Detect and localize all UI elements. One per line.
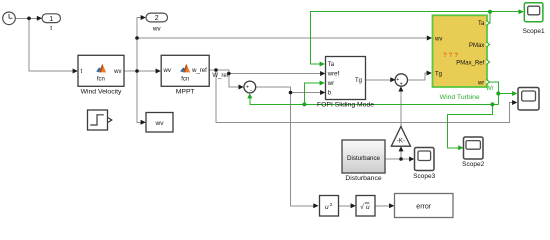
svg-text:2: 2 xyxy=(330,202,333,208)
svg-text:t: t xyxy=(50,25,52,32)
svg-text:√: √ xyxy=(360,203,364,211)
svg-text:Wind Turbine: Wind Turbine xyxy=(440,94,480,101)
svg-text:+: + xyxy=(400,82,403,88)
svg-text:Wind Velocity: Wind Velocity xyxy=(81,88,122,95)
svg-text:Scope1: Scope1 xyxy=(523,28,545,35)
svg-text:FOPI Sliding Mode: FOPI Sliding Mode xyxy=(317,102,374,109)
svg-text:W_ref: W_ref xyxy=(212,73,228,79)
svg-text:-: - xyxy=(250,88,252,94)
svg-text:-K-: -K- xyxy=(397,139,405,145)
svg-text:wv: wv xyxy=(163,68,171,74)
svg-text:error: error xyxy=(416,203,431,210)
svg-text:fcn: fcn xyxy=(181,77,189,83)
svg-text:? ? ?: ? ? ? xyxy=(443,52,458,59)
svg-text:wr: wr xyxy=(327,81,334,87)
svg-text:Disturbance: Disturbance xyxy=(347,155,381,162)
svg-text:2: 2 xyxy=(155,15,159,22)
svg-text:Wr: Wr xyxy=(486,86,494,92)
svg-text:Disturbance: Disturbance xyxy=(345,175,381,182)
svg-text:Tg: Tg xyxy=(355,78,362,84)
svg-text:PMax_Ref: PMax_Ref xyxy=(456,60,484,66)
svg-text:PMax: PMax xyxy=(469,43,484,49)
svg-text:1: 1 xyxy=(49,16,53,23)
svg-text:wref: wref xyxy=(327,72,340,78)
svg-text:wr: wr xyxy=(477,80,484,86)
svg-text:wv: wv xyxy=(152,25,162,32)
svg-text:MPPT: MPPT xyxy=(176,88,195,95)
svg-text:w_ref: w_ref xyxy=(191,68,207,74)
svg-text:u: u xyxy=(366,204,370,211)
svg-text:Tg: Tg xyxy=(435,71,442,77)
svg-text:Ta: Ta xyxy=(328,62,335,68)
svg-text:fcn: fcn xyxy=(97,77,105,83)
svg-text:wv: wv xyxy=(113,69,121,75)
svg-text:Scope2: Scope2 xyxy=(462,161,484,168)
svg-text:Ta: Ta xyxy=(478,21,485,27)
svg-text:+: + xyxy=(246,85,249,91)
svg-text:wv: wv xyxy=(155,120,165,127)
svg-text:Scope3: Scope3 xyxy=(413,173,435,180)
svg-text:u: u xyxy=(325,204,329,211)
svg-text:wv: wv xyxy=(434,37,442,43)
